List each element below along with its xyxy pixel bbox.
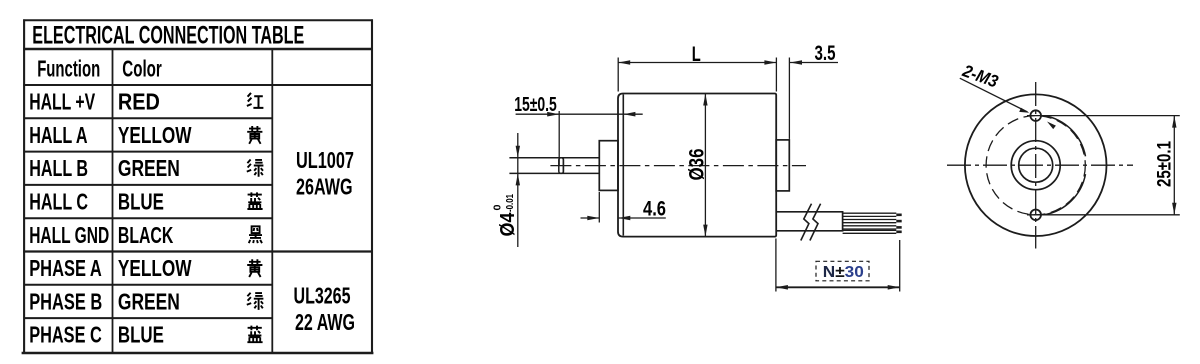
- svg-text:YELLOW: YELLOW: [118, 122, 192, 148]
- dimension N±30: [776, 239, 900, 292]
- svg-text:15±0.5: 15±0.5: [514, 94, 557, 116]
- svg-text:ELECTRICAL CONNECTION TABLE: ELECTRICAL CONNECTION TABLE: [32, 21, 304, 49]
- dimension Ø4 0/-0.01: [517, 133, 519, 247]
- dimension L: [618, 58, 776, 92]
- svg-text:0: 0: [492, 204, 504, 210]
- label 2-M3 with leader: [960, 78, 1028, 112]
- svg-text:PHASE C: PHASE C: [29, 322, 102, 348]
- svg-text:Function: Function: [37, 55, 100, 81]
- dimension 15±0.5: [516, 111, 643, 166]
- function column rows: [29, 89, 109, 348]
- dimension Ø36: [704, 94, 706, 237]
- svg-text:HALL GND: HALL GND: [29, 222, 109, 248]
- label 25±0.1 (rotated): [1155, 141, 1176, 187]
- cable break mark: [801, 204, 821, 241]
- shaft outline + Ø4 extension lines: [509, 158, 599, 174]
- svg-text:L: L: [692, 43, 701, 66]
- svg-text:22 AWG: 22 AWG: [295, 309, 355, 335]
- shaft tip rounded cap with chamfer line: [559, 158, 564, 174]
- N±30 dashed frame: [816, 261, 869, 281]
- svg-text:RED: RED: [118, 89, 160, 115]
- color column rows: [118, 89, 192, 348]
- table grid lines: [22, 19, 374, 353]
- svg-text:PHASE A: PHASE A: [29, 255, 102, 281]
- svg-text:3.5: 3.5: [815, 42, 836, 65]
- svg-text:25±0.1: 25±0.1: [1155, 141, 1176, 187]
- svg-text:Ø36: Ø36: [686, 149, 709, 181]
- svg-text:-0.01: -0.01: [504, 194, 516, 212]
- svg-text:YELLOW: YELLOW: [118, 255, 192, 281]
- svg-text:UL1007: UL1007: [296, 147, 354, 173]
- horizontal centerline: [947, 164, 1133, 166]
- svg-text:BLUE: BLUE: [118, 189, 164, 215]
- chinese color characters: [247, 93, 264, 108]
- wire end tips: [896, 214, 901, 234]
- svg-text:2-M3: 2-M3: [959, 60, 1001, 91]
- label Ø4 0/-0.01 (rotated): [492, 194, 520, 237]
- motor body outline: [618, 94, 776, 237]
- svg-text:26AWG: 26AWG: [296, 173, 353, 199]
- thread arc near bottom hole: [1045, 174, 1086, 215]
- front flange: [599, 141, 618, 191]
- lead wires: [843, 213, 897, 233]
- svg-text:UL3265: UL3265: [294, 282, 351, 308]
- bottom M3 hole: [1030, 210, 1041, 221]
- top M3 hole: [1030, 110, 1041, 121]
- svg-text:HALL A: HALL A: [29, 122, 87, 148]
- thread arc near top hole: [1045, 116, 1086, 157]
- svg-text:Color: Color: [122, 55, 162, 81]
- svg-text:Ø4: Ø4: [497, 212, 519, 237]
- svg-text:PHASE B: PHASE B: [29, 288, 102, 314]
- svg-text:HALL +V: HALL +V: [29, 89, 95, 115]
- horizontal centerline: [550, 165, 806, 167]
- svg-text:HALL B: HALL B: [29, 155, 88, 181]
- center boss circle: [1011, 141, 1060, 190]
- dimension 25±0.1: [1027, 116, 1180, 215]
- svg-text:GREEN: GREEN: [118, 155, 180, 181]
- bolt circle (dashed): [986, 116, 1085, 215]
- outer circle: [965, 94, 1107, 236]
- body front seam line: [622, 95, 624, 236]
- dimension 4.6: [581, 192, 666, 223]
- label Ø36 (rotated): [686, 149, 709, 181]
- dimension 3.5: [789, 58, 838, 139]
- vertical centerline: [1035, 82, 1037, 249]
- svg-text:GREEN: GREEN: [118, 288, 180, 314]
- svg-text:BLUE: BLUE: [118, 322, 164, 348]
- svg-text:HALL C: HALL C: [29, 189, 88, 215]
- svg-text:BLACK: BLACK: [118, 222, 174, 248]
- cable: [776, 212, 842, 231]
- center hole circle: [1019, 148, 1053, 182]
- svg-text:N±30: N±30: [823, 264, 864, 281]
- svg-text:4.6: 4.6: [643, 198, 666, 221]
- rear boss: [776, 140, 789, 191]
